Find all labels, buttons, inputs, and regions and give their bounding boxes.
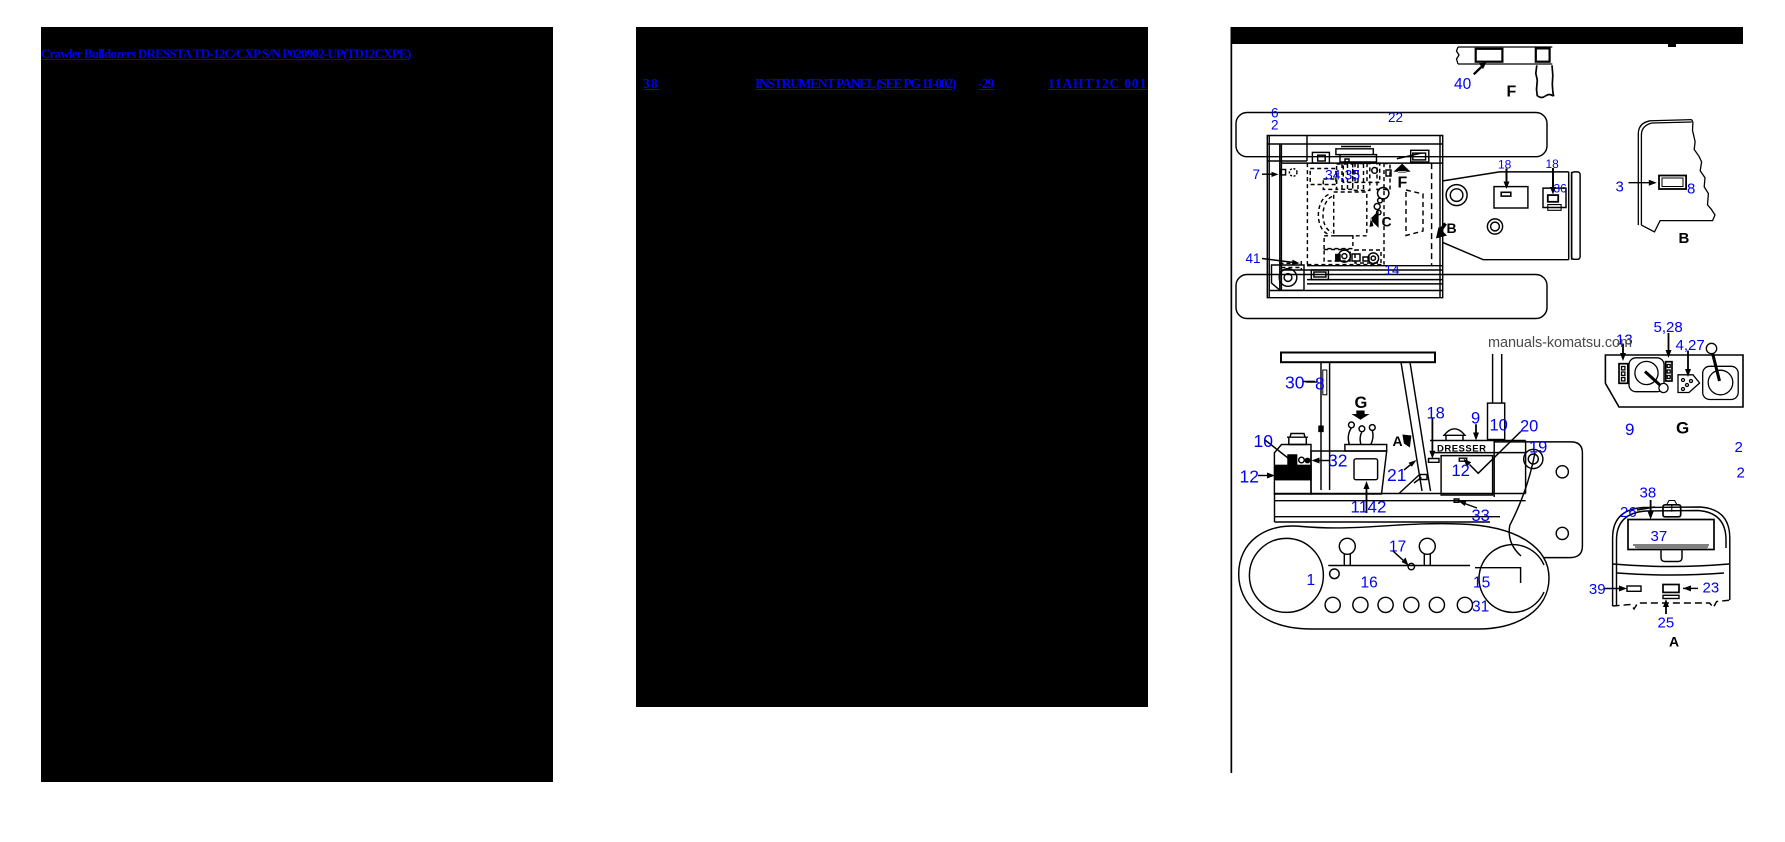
svg-text:31: 31 — [1472, 598, 1489, 615]
svg-text:11: 11 — [1351, 498, 1369, 517]
svg-text:7: 7 — [1253, 167, 1261, 182]
svg-text:8: 8 — [1315, 374, 1325, 394]
svg-text:17: 17 — [1389, 538, 1406, 555]
svg-text:DRESSER: DRESSER — [1437, 444, 1486, 455]
svg-text:37: 37 — [1651, 528, 1668, 545]
svg-text:23: 23 — [1703, 579, 1720, 596]
svg-text:3: 3 — [1616, 178, 1624, 195]
svg-text:F: F — [1398, 175, 1408, 192]
svg-text:2: 2 — [1271, 118, 1279, 133]
svg-text:20: 20 — [1520, 417, 1538, 435]
svg-text:22: 22 — [1388, 110, 1403, 125]
svg-text:B: B — [1679, 230, 1690, 247]
svg-text:10: 10 — [1254, 431, 1274, 451]
svg-text:manuals-komatsu.com: manuals-komatsu.com — [1488, 335, 1632, 351]
svg-text:A: A — [1669, 634, 1679, 650]
svg-text:36: 36 — [1554, 182, 1568, 196]
svg-text:10: 10 — [1490, 416, 1508, 434]
svg-text:26: 26 — [1620, 504, 1637, 521]
svg-text:21: 21 — [1387, 465, 1406, 485]
svg-text:41: 41 — [1246, 251, 1261, 266]
svg-text:8: 8 — [1687, 181, 1695, 198]
svg-text:2: 2 — [1735, 439, 1743, 456]
svg-text:18: 18 — [1546, 157, 1560, 171]
svg-text:42: 42 — [1368, 498, 1387, 517]
svg-text:12: 12 — [1240, 466, 1259, 486]
svg-text:5,28: 5,28 — [1654, 319, 1683, 336]
svg-text:F: F — [1507, 84, 1517, 101]
svg-text:A: A — [1393, 433, 1403, 449]
svg-text:9: 9 — [1471, 409, 1480, 427]
svg-text:16: 16 — [1361, 574, 1378, 591]
svg-text:1: 1 — [1307, 572, 1316, 589]
svg-text:33: 33 — [1472, 507, 1490, 525]
svg-text:TD-12C: TD-12C — [1279, 471, 1307, 478]
svg-text:19: 19 — [1529, 439, 1547, 457]
svg-text:9: 9 — [1625, 420, 1634, 439]
svg-text:39: 39 — [1589, 581, 1606, 598]
svg-text:32: 32 — [1328, 451, 1347, 471]
svg-text:38: 38 — [1640, 485, 1657, 502]
svg-text:4,27: 4,27 — [1676, 337, 1705, 354]
svg-text:B: B — [1447, 220, 1457, 236]
svg-text:G: G — [1676, 418, 1689, 437]
svg-text:30: 30 — [1285, 372, 1305, 392]
svg-text:12: 12 — [1452, 462, 1470, 480]
svg-text:40: 40 — [1454, 76, 1472, 93]
svg-text:34,35: 34,35 — [1325, 167, 1360, 183]
svg-text:25: 25 — [1658, 614, 1675, 631]
svg-text:2: 2 — [1737, 464, 1745, 481]
svg-text:14: 14 — [1385, 263, 1401, 278]
svg-text:G: G — [1355, 394, 1368, 412]
svg-text:C: C — [1382, 213, 1392, 229]
svg-text:18: 18 — [1498, 158, 1512, 172]
svg-text:15: 15 — [1473, 574, 1490, 591]
svg-text:18: 18 — [1427, 404, 1445, 422]
